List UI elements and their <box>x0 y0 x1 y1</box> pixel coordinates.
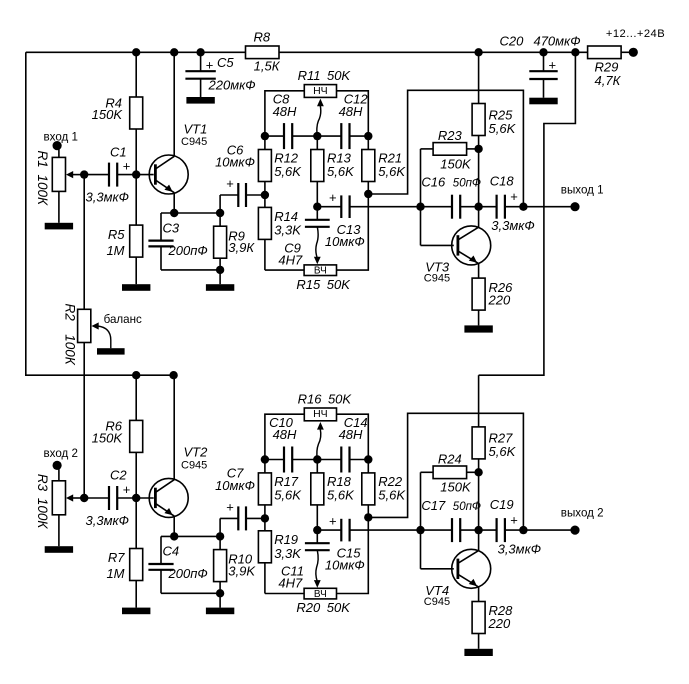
svg-text:баланс: баланс <box>104 313 142 326</box>
svg-text:НЧ: НЧ <box>313 85 328 97</box>
label C2 <box>110 468 130 497</box>
wire emitter row <box>161 535 220 537</box>
label VT3 C945 <box>424 260 450 285</box>
svg-text:50пФ: 50пФ <box>453 501 481 513</box>
svg-text:C1: C1 <box>110 144 127 159</box>
label R21 <box>378 150 406 179</box>
label R14 <box>274 209 302 238</box>
label R17 <box>274 474 302 503</box>
wire supply to R6 <box>135 375 137 420</box>
wiper of R16 <box>317 422 324 460</box>
wire C7 to tone network <box>246 517 265 519</box>
svg-text:ВЧ: ВЧ <box>314 589 327 600</box>
wire R16 right <box>337 414 369 459</box>
label VT2 C945 <box>181 445 208 472</box>
ground under R26 <box>464 310 492 333</box>
capacitor C2 3,3мкФ <box>109 486 117 510</box>
node emitter VT1 <box>170 209 178 217</box>
node: input terminal вход 1 <box>53 141 62 150</box>
capacitor C18 3,3мкФ <box>479 195 524 219</box>
label R18 <box>327 474 355 503</box>
wire base column VT4 <box>421 472 454 569</box>
resistor R9 3,9К <box>214 213 227 270</box>
svg-text:150K: 150K <box>440 480 472 495</box>
svg-text:5,6K: 5,6K <box>274 487 302 502</box>
label выход 2 <box>561 507 604 520</box>
ground under C5 <box>186 97 214 104</box>
svg-text:50пФ: 50пФ <box>453 177 481 189</box>
terminal выход 2 <box>570 526 579 535</box>
resistor R5 1M <box>130 225 143 257</box>
label C12 48H <box>339 92 369 119</box>
label C15 10мкФ <box>325 513 365 572</box>
label C10 48H <box>269 415 297 442</box>
svg-text:VT1: VT1 <box>184 121 208 136</box>
node ch2 rail VT2 collector <box>169 371 177 379</box>
svg-text:5,6K: 5,6K <box>327 164 355 179</box>
resistor R4 150K <box>130 97 143 129</box>
wire R7 to ground <box>135 581 137 608</box>
wire base into VT2 <box>136 497 154 499</box>
wiper arrow R1 <box>66 171 84 178</box>
resistor R25 5,6K <box>472 104 485 136</box>
node C13 out <box>416 203 424 211</box>
svg-text:5,6K: 5,6K <box>274 164 302 179</box>
svg-text:150K: 150K <box>440 156 472 171</box>
resistor R14 3,3K <box>258 195 271 270</box>
label C19 <box>490 497 541 556</box>
svg-text:C2: C2 <box>110 468 127 483</box>
svg-text:R7: R7 <box>108 550 125 565</box>
svg-text:C945: C945 <box>181 136 207 148</box>
label C6 10мкФ <box>215 142 255 191</box>
potentiometer R16 50K НЧ box <box>304 408 336 421</box>
resistor R29 4,7К <box>588 46 622 59</box>
wire emitter VT1 <box>173 193 175 213</box>
svg-text:R2 100К: R2 100К <box>62 304 77 366</box>
label VT1 C945 <box>181 121 207 148</box>
label R12 <box>274 150 302 179</box>
svg-text:5,6K: 5,6K <box>378 164 406 179</box>
ground under R3 <box>45 546 73 553</box>
label C8 48H <box>273 92 297 119</box>
wire to C1 <box>84 174 109 176</box>
label R26 220 <box>488 280 514 308</box>
ground under R10 <box>206 593 234 614</box>
svg-text:R29: R29 <box>595 59 619 74</box>
wiper of R15 <box>314 227 321 264</box>
capacitor C6 10мкФ <box>238 183 246 207</box>
node tone left <box>261 132 269 140</box>
label R19 <box>274 532 302 561</box>
svg-text:+: + <box>329 513 337 528</box>
node rail ch2 feed <box>571 48 579 56</box>
wire R3 to ground <box>58 515 60 546</box>
node R10 bottom <box>216 589 224 597</box>
svg-text:+: + <box>549 58 557 73</box>
node ch2 rail R6 <box>132 371 140 379</box>
svg-text:5,6K: 5,6K <box>489 121 517 136</box>
node C15 out <box>416 526 424 534</box>
svg-text:150K: 150K <box>92 107 124 122</box>
node rail C20 <box>539 48 547 56</box>
node tone left <box>261 455 269 463</box>
svg-text:+: + <box>226 499 234 514</box>
svg-text:1M: 1M <box>106 243 124 258</box>
wire base to R7 <box>135 498 137 549</box>
svg-text:R23: R23 <box>438 128 463 143</box>
resistor R10 3,9К <box>214 536 227 593</box>
svg-text:C945: C945 <box>181 459 207 471</box>
svg-text:48H: 48H <box>339 104 363 119</box>
resistor R24 150K <box>421 466 479 479</box>
node tone right <box>364 132 372 140</box>
transistor VT2 C945 <box>149 478 188 517</box>
capacitor C8 48H <box>284 123 292 149</box>
node rail R25 feed <box>474 48 482 56</box>
svg-text:3,3мкФ: 3,3мкФ <box>498 541 541 556</box>
potentiometer R11 50K НЧ box <box>304 85 336 98</box>
svg-text:5,6K: 5,6K <box>327 487 355 502</box>
label C5 220мкФ <box>206 55 256 93</box>
ground under R5 <box>122 284 150 291</box>
transistor VT4 C945 <box>452 549 491 588</box>
wire to output terminal <box>523 529 575 531</box>
wire ch2 supply feed <box>479 52 576 375</box>
label R16 50K <box>298 391 353 406</box>
label R1 100К <box>35 151 50 207</box>
svg-text:+: + <box>206 58 214 73</box>
wire C1 to base node <box>117 174 136 176</box>
label R20 50K <box>296 600 351 615</box>
svg-text:220мкФ: 220мкФ <box>208 78 256 93</box>
wire input to R1 <box>58 146 60 158</box>
svg-text:3,3мкФ: 3,3мкФ <box>491 218 534 233</box>
svg-text:48H: 48H <box>273 104 297 119</box>
svg-text:R20 50K: R20 50K <box>296 600 351 615</box>
label C13 10мкФ <box>325 190 365 249</box>
svg-text:выход 1: выход 1 <box>561 183 604 196</box>
wire base into VT1 <box>136 174 154 176</box>
svg-text:10мкФ: 10мкФ <box>325 558 365 573</box>
svg-text:C18: C18 <box>490 174 515 189</box>
label R11 50K <box>298 68 352 83</box>
label C18 <box>490 174 535 233</box>
resistor R28 220 <box>472 602 485 634</box>
label R9 3,9К <box>228 228 255 255</box>
node base of VT1 <box>132 170 140 178</box>
capacitor C9 4H7 <box>305 207 330 227</box>
label вход 2 <box>44 447 78 460</box>
svg-text:VT2: VT2 <box>184 445 209 460</box>
wire R25 to collector node <box>478 136 480 149</box>
wiper arrow R3 <box>66 494 84 501</box>
ground under C20 <box>529 98 557 105</box>
node C7 out <box>261 514 269 522</box>
resistor R22 5,6K <box>362 460 375 518</box>
svg-text:C16: C16 <box>421 174 446 189</box>
terminal выход 1 <box>570 202 579 211</box>
svg-text:НЧ: НЧ <box>313 408 328 420</box>
wire R27 to collector node <box>478 459 480 472</box>
label R29 4,7К <box>595 59 622 88</box>
svg-text:C945: C945 <box>424 273 450 285</box>
wire emitter VT4 <box>478 587 480 602</box>
svg-text:200пФ: 200пФ <box>168 243 208 258</box>
svg-text:вход 2: вход 2 <box>44 447 78 460</box>
transistor VT3 C945 <box>452 226 491 265</box>
wire emitter to C6 <box>220 195 238 213</box>
resistor R6 150K <box>130 420 143 452</box>
svg-text:+: + <box>123 482 131 497</box>
svg-text:3,3мкФ: 3,3мкФ <box>86 190 129 205</box>
wire to C2 <box>84 497 109 499</box>
wire power rail top <box>26 51 246 53</box>
label R8 1,5К <box>253 29 280 73</box>
node R24 right <box>474 468 482 476</box>
svg-text:48H: 48H <box>273 427 297 442</box>
label +12...+24В <box>606 28 665 40</box>
resistor R18 5,6K <box>311 460 324 531</box>
label R6 150K <box>92 419 124 446</box>
node tone right <box>364 455 372 463</box>
wiper of R11 <box>317 99 324 137</box>
svg-text:R15 50K: R15 50K <box>296 277 351 292</box>
potentiometer R1 100К <box>52 157 65 191</box>
wire emitter VT2 <box>173 516 175 536</box>
svg-text:10мкФ: 10мкФ <box>325 234 365 249</box>
label C4 200пФ <box>163 544 208 582</box>
node R22 bottom <box>364 513 372 521</box>
wire base to R5 <box>135 175 137 226</box>
wire emitter network bottom <box>161 269 220 271</box>
capacitor C14 48H <box>341 447 349 473</box>
resistor R23 150K <box>421 143 479 156</box>
label C7 10мкФ <box>215 466 255 515</box>
label выход 1 <box>561 183 604 196</box>
node output выход 2 <box>519 526 527 534</box>
wire tone top row <box>265 135 368 137</box>
svg-text:+: + <box>226 176 234 191</box>
svg-text:C3: C3 <box>163 220 180 235</box>
resistor R8 1,5К <box>246 46 280 59</box>
wire base column VT3 <box>421 149 454 246</box>
capacitor C5 220мкФ <box>185 52 215 97</box>
wire feedback frame <box>368 413 523 530</box>
label R27 <box>489 431 517 460</box>
resistor R26 220 <box>472 278 485 310</box>
wire input1 to R2 <box>83 175 85 310</box>
resistor R7 1M <box>130 549 143 581</box>
wire emitter row <box>161 212 220 214</box>
svg-text:10мкФ: 10мкФ <box>215 478 255 493</box>
capacitor C13 10мкФ <box>317 195 420 218</box>
label C16 50пФ <box>421 174 481 189</box>
node collector VT4 <box>474 526 482 534</box>
node rail R4 <box>132 48 140 56</box>
svg-text:R3 100К: R3 100К <box>35 474 50 530</box>
svg-text:+: + <box>329 190 337 205</box>
label C11 4H7 <box>278 564 304 591</box>
capacitor C19 3,3мкФ <box>479 518 524 542</box>
svg-text:220: 220 <box>488 292 511 307</box>
node R21 bottom <box>364 190 372 198</box>
svg-text:ВЧ: ВЧ <box>314 266 327 277</box>
svg-text:выход 2: выход 2 <box>561 507 604 520</box>
node rail VT1 collector <box>170 48 178 56</box>
wire R22 to R20 right <box>337 517 369 593</box>
svg-text:R11 50K: R11 50K <box>298 68 352 83</box>
wire R6 to base <box>135 452 137 498</box>
node rail C5 <box>196 48 204 56</box>
svg-text:1,5К: 1,5К <box>254 59 281 74</box>
svg-text:3,9K: 3,9K <box>228 564 256 579</box>
potentiometer R20 50K ВЧ box <box>304 588 336 600</box>
ground under R2 wiper <box>97 348 125 354</box>
wiper arrow R2 <box>92 322 111 348</box>
label R13 <box>327 150 355 179</box>
svg-text:220: 220 <box>488 616 511 631</box>
wire collector VT4 <box>478 472 480 550</box>
svg-text:4H7: 4H7 <box>278 576 303 591</box>
wire emitter network bottom <box>161 592 220 594</box>
label вход 1 <box>44 130 78 143</box>
wire R29 to +V terminal <box>621 51 633 53</box>
svg-text:C5: C5 <box>217 55 234 70</box>
svg-text:3,9К: 3,9К <box>228 240 255 255</box>
node output выход 1 <box>519 203 527 211</box>
potentiometer R3 100К <box>52 481 65 515</box>
svg-text:3,3K: 3,3K <box>274 222 302 237</box>
label C17 50пФ <box>421 498 481 513</box>
label R3 100К <box>35 474 50 530</box>
node collector VT3 <box>474 203 482 211</box>
capacitor C20 470мкФ <box>529 52 557 97</box>
svg-text:3,3мкФ: 3,3мкФ <box>86 513 129 528</box>
wire collector VT2 to supply <box>173 375 175 480</box>
label C20 470мкФ <box>500 33 581 72</box>
wire supply to R25 <box>478 52 480 103</box>
transistor VT1 C945 <box>149 155 188 194</box>
svg-text:10мкФ: 10мкФ <box>215 155 255 170</box>
terminal +12...+24В <box>629 48 638 57</box>
wire R5 to ground <box>135 257 137 284</box>
capacitor C12 48H <box>341 123 349 149</box>
node C6 out <box>261 191 269 199</box>
label C9 4H7 <box>278 240 303 267</box>
wire C6 to tone network <box>246 194 265 196</box>
wire R21 to R15 right <box>337 194 369 270</box>
svg-text:вход 1: вход 1 <box>44 130 78 143</box>
wire tone top row <box>265 459 368 461</box>
capacitor C16 50пФ <box>421 195 479 219</box>
svg-text:C17: C17 <box>421 498 446 513</box>
node input/C1 junction <box>80 170 88 178</box>
svg-text:1M: 1M <box>106 566 124 581</box>
svg-text:R1 100К: R1 100К <box>35 151 50 207</box>
wire R4 to base <box>135 129 137 175</box>
wire R1 to ground <box>58 191 60 222</box>
node tone mid <box>313 455 321 463</box>
label R2 100К <box>62 304 77 366</box>
wire R19 to R20 <box>265 593 304 595</box>
node R23 right <box>474 145 482 153</box>
wire emitter VT3 <box>478 263 480 278</box>
label R15 50K <box>296 277 351 292</box>
wire collector VT1 to supply <box>173 52 175 156</box>
node: input terminal вход 2 <box>53 461 62 470</box>
svg-text:150K: 150K <box>92 430 124 445</box>
label R7 1M <box>106 550 125 581</box>
ground under R28 <box>464 634 492 657</box>
capacitor C15 10мкФ <box>317 519 420 542</box>
svg-text:R16 50K: R16 50K <box>298 391 353 406</box>
label R28 220 <box>488 603 514 631</box>
svg-text:+: + <box>510 189 518 204</box>
label VT4 C945 <box>424 583 450 608</box>
capacitor C7 10мкФ <box>238 506 246 530</box>
svg-text:+12...+24В: +12...+24В <box>606 28 665 40</box>
svg-text:C945: C945 <box>424 596 450 608</box>
svg-text:R24: R24 <box>438 451 462 466</box>
node emitter VT2 <box>170 532 178 540</box>
wire feedback frame <box>368 90 523 206</box>
node R10 top <box>216 532 224 540</box>
svg-text:C4: C4 <box>163 544 180 559</box>
wire C2 to base node <box>117 497 136 499</box>
resistor R21 5,6K <box>362 136 375 194</box>
wire input to R3 <box>58 465 60 480</box>
label R10 3,9К <box>228 552 256 579</box>
label C14 48H <box>339 415 368 442</box>
ground under R7 <box>122 608 150 615</box>
node tone mid <box>313 132 321 140</box>
capacitor C17 50пФ <box>421 518 479 542</box>
svg-text:C20 470мкФ: C20 470мкФ <box>500 33 581 48</box>
node R9 top <box>216 209 224 217</box>
wire R16 left <box>265 414 304 459</box>
capacitor C1 3,3мкФ <box>109 163 117 187</box>
resistor R13 5,6K <box>311 136 324 207</box>
svg-text:200пФ: 200пФ <box>168 566 208 581</box>
wire R14 to R15 <box>265 269 304 271</box>
label баланс <box>104 313 142 326</box>
label 3,3мкФ of C2 <box>86 513 129 528</box>
wire R2 to input2 <box>83 343 85 499</box>
wire supply to R4 <box>135 52 137 97</box>
wire emitter to C7 <box>220 518 238 536</box>
potentiometer R2 100К <box>78 309 91 342</box>
capacitor C4 200пФ <box>148 536 173 593</box>
wire R11 left <box>265 91 304 136</box>
ground under R1 <box>45 223 73 230</box>
resistor R12 5,6K <box>258 136 271 195</box>
wire to output terminal <box>523 206 575 208</box>
wire left frame <box>26 52 174 375</box>
svg-text:R8: R8 <box>253 29 270 44</box>
svg-text:5,6K: 5,6K <box>489 444 517 459</box>
capacitor C3 200пФ <box>148 213 173 270</box>
label R23 150K <box>438 128 472 171</box>
svg-text:C19: C19 <box>490 497 514 512</box>
label 3,3мкФ of C1 <box>86 190 129 205</box>
svg-text:R5: R5 <box>108 227 125 242</box>
resistor R27 5,6K <box>472 427 485 459</box>
node mid R18 bottom <box>313 526 321 534</box>
potentiometer R15 50K ВЧ box <box>304 265 336 277</box>
label R5 1M <box>106 227 125 258</box>
svg-text:48H: 48H <box>339 427 363 442</box>
